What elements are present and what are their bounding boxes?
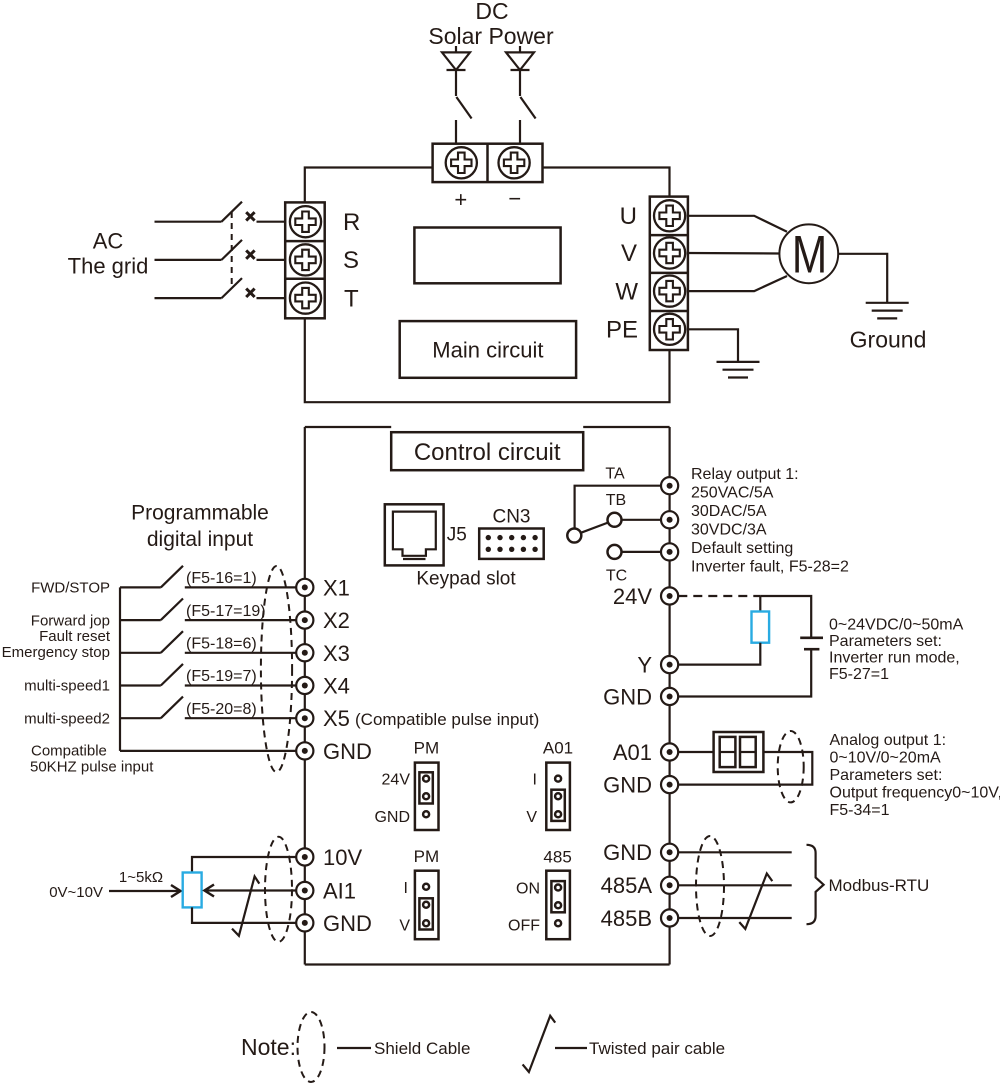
relay TB contact (608, 513, 622, 527)
svg-text:30VDC/3A: 30VDC/3A (691, 522, 767, 539)
switch S2 (DC-) (520, 97, 536, 144)
relay TC contact (608, 545, 622, 559)
svg-text:V: V (526, 809, 537, 826)
wire control box left bus (304, 427, 306, 965)
shield ellipse (AI) (265, 837, 292, 942)
wire V to motor (688, 252, 780, 255)
terminal A01 (661, 743, 678, 760)
svg-text:W: W (615, 279, 638, 306)
ground (motor) (866, 303, 909, 319)
battery plate top (800, 636, 823, 639)
keypad connector J5 (385, 504, 444, 565)
terminal TC (661, 543, 678, 560)
svg-text:GND: GND (603, 685, 652, 710)
wire diode D1 anode lead (455, 46, 457, 53)
svg-text:Inverter fault, F5-28=2: Inverter fault, F5-28=2 (691, 559, 849, 576)
shield ellipse (A01) (778, 731, 804, 802)
legend twisted line (555, 1047, 587, 1049)
svg-text:R: R (343, 209, 360, 236)
svg-text:250VAC/5A: 250VAC/5A (691, 485, 774, 502)
wire 485A (678, 884, 791, 886)
wire battery to GND (678, 649, 811, 696)
wire X3 (185, 652, 296, 654)
svg-text:ON: ON (516, 881, 540, 898)
brace modbus (807, 845, 824, 924)
svg-text:F5-27=1: F5-27=1 (829, 666, 889, 683)
wire main box top right (543, 168, 670, 197)
legend twisted mark (523, 1016, 556, 1072)
svg-text:U: U (620, 203, 637, 230)
svg-text:X2: X2 (323, 608, 350, 633)
screw terminal + (446, 147, 477, 178)
svg-text:multi-speed2: multi-speed2 (24, 711, 110, 728)
box Main circuit (400, 321, 576, 378)
svg-text:X4: X4 (323, 674, 350, 699)
svg-text:Parameters set:: Parameters set: (830, 767, 943, 784)
switch QT (grid T phase) (155, 278, 286, 298)
svg-text:Shield Cable: Shield Cable (374, 1039, 470, 1058)
terminal X1 (296, 579, 313, 596)
svg-text:Relay output 1:: Relay output 1: (691, 466, 799, 483)
svg-text:multi-speed1: multi-speed1 (24, 678, 110, 695)
wire TC (622, 551, 662, 553)
terminal 24V (661, 587, 678, 604)
svg-text:GND: GND (603, 840, 652, 865)
note analog output (830, 732, 1000, 819)
svg-text:0~10V/0~20mA: 0~10V/0~20mA (830, 750, 942, 767)
svg-text:TC: TC (606, 568, 627, 585)
svg-text:0V~10V: 0V~10V (49, 884, 103, 901)
wire control box top right (583, 426, 669, 428)
svg-text:Compatible: Compatible (31, 743, 107, 760)
svg-text:GND: GND (374, 809, 410, 826)
svg-text:X5: X5 (323, 706, 350, 731)
svg-text:I: I (404, 880, 408, 897)
wire X5 (185, 717, 296, 719)
terminal TB (661, 511, 678, 528)
wire TA (575, 486, 661, 529)
svg-text:digital input: digital input (147, 528, 253, 551)
screw terminal R (290, 206, 321, 237)
jumper block 485 (546, 871, 570, 940)
svg-text:10V: 10V (323, 845, 362, 870)
switch X1 input (120, 566, 183, 588)
wire X4 (185, 684, 296, 686)
terminal 485B (661, 909, 678, 926)
svg-text:TA: TA (605, 466, 625, 483)
terminal GND (modbus) (661, 844, 678, 861)
svg-text:(F5-20=8): (F5-20=8) (186, 701, 257, 718)
wire 24V junction to load (759, 596, 761, 612)
svg-text:1~5kΩ: 1~5kΩ (119, 869, 163, 886)
arrow pot wiper to AI1 (205, 885, 297, 897)
jumper block PM (AI) (415, 871, 439, 940)
switch QS (grid S phase) (155, 240, 286, 260)
relay blade (581, 523, 608, 533)
terminal AI1 (296, 882, 313, 899)
svg-text:(Compatible pulse input): (Compatible pulse input) (355, 710, 539, 729)
wire main box top left (305, 168, 433, 203)
svg-text:Keypad slot: Keypad slot (416, 569, 516, 590)
connector CN3 (479, 529, 544, 559)
twisted pair mark (AI) (232, 876, 259, 935)
svg-text:J5: J5 (447, 525, 467, 546)
screw terminal W (654, 276, 685, 307)
svg-text:Fault reset: Fault reset (39, 628, 111, 645)
svg-text:X3: X3 (323, 641, 350, 666)
svg-text:GND: GND (323, 739, 372, 764)
terminal X3 (296, 644, 313, 661)
legend shield line (337, 1047, 371, 1049)
screw terminal U (654, 200, 685, 231)
arrow input to pot (109, 885, 181, 897)
resistor load (blue) (752, 612, 770, 643)
wire U to motor (688, 216, 787, 232)
wire pot to GND (192, 907, 296, 923)
svg-text:Analog output 1:: Analog output 1: (830, 732, 947, 749)
svg-text:PM: PM (414, 847, 440, 866)
svg-text:(F5-19=7): (F5-19=7) (186, 668, 257, 685)
wire 24V dashed (678, 595, 760, 597)
svg-text:(F5-17=19): (F5-17=19) (186, 603, 266, 620)
wire PE to ground (688, 329, 738, 362)
converter block (714, 732, 764, 772)
svg-text:24V: 24V (613, 584, 652, 609)
jumper block A01 (546, 763, 570, 830)
svg-text:PM: PM (414, 739, 440, 758)
terminal block DC (+/-) (433, 144, 543, 182)
wire W to motor (688, 276, 787, 291)
shield ellipse (modbus) (696, 836, 724, 936)
terminal 10V (296, 848, 313, 865)
note Y output (829, 617, 964, 684)
switch X4 input (120, 664, 183, 686)
svg-text:485B: 485B (601, 906, 652, 931)
screw terminal S (290, 244, 321, 275)
breaker mark x (S) (246, 250, 254, 258)
svg-text:Default setting: Default setting (691, 540, 793, 557)
terminal GND (Y) (661, 688, 678, 705)
svg-text:F5-34=1: F5-34=1 (830, 802, 890, 819)
svg-text:Y: Y (637, 653, 652, 678)
switch QR (grid R phase) (155, 202, 286, 222)
terminal block UVW PE (650, 197, 688, 350)
svg-text:X1: X1 (323, 576, 350, 601)
legend shield ellipse (298, 1012, 325, 1082)
wire X2 (185, 619, 296, 621)
svg-text:PE: PE (606, 317, 638, 344)
svg-text:The grid: The grid (68, 254, 149, 279)
screw terminal V (654, 237, 685, 268)
screw terminal T (290, 283, 321, 314)
terminal X4 (296, 677, 313, 694)
svg-text:Output frequency0~10V,: Output frequency0~10V, (830, 785, 1000, 802)
svg-text:Solar Power: Solar Power (428, 23, 554, 49)
terminal TA (661, 477, 678, 494)
svg-text:CN3: CN3 (492, 507, 530, 528)
svg-text:A01: A01 (613, 740, 652, 765)
wire GND input (120, 750, 296, 752)
svg-text:GND: GND (603, 773, 652, 798)
svg-text:AI1: AI1 (323, 879, 356, 904)
note relay output (691, 466, 849, 576)
wire 24V to battery (760, 596, 811, 638)
svg-text:0~24VDC/0~50mA: 0~24VDC/0~50mA (829, 617, 964, 634)
box Control circuit (391, 432, 583, 470)
shield ellipse (digital inputs) (261, 566, 292, 772)
wire control box top left (305, 426, 391, 428)
svg-text:Emergency stop: Emergency stop (2, 644, 110, 661)
wire diode D2 anode lead (519, 46, 521, 53)
svg-text:+: + (454, 187, 467, 212)
terminal GND (AI) (296, 914, 313, 931)
svg-text:−: − (508, 186, 521, 211)
terminal block RST (285, 202, 325, 318)
svg-text:Programmable: Programmable (131, 502, 269, 525)
wire 10V to pot (192, 857, 296, 873)
svg-text:M: M (792, 226, 827, 285)
breaker gang dashed link (231, 212, 233, 289)
ground (PE) (717, 362, 760, 378)
svg-text:485A: 485A (601, 873, 653, 898)
twisted pair mark (modbus) (739, 874, 772, 929)
switch X2 input (120, 599, 183, 621)
svg-text:485: 485 (543, 848, 571, 867)
svg-text:Inverter run mode,: Inverter run mode, (829, 650, 960, 667)
svg-text:GND: GND (323, 911, 372, 936)
svg-text:DC: DC (475, 0, 508, 24)
svg-text:Forward jop: Forward jop (31, 613, 110, 630)
svg-text:TB: TB (606, 492, 626, 509)
wire load to Y (678, 643, 760, 665)
relay common contact (567, 529, 581, 543)
svg-text:(F5-16=1): (F5-16=1) (186, 570, 257, 587)
svg-text:V: V (399, 918, 410, 935)
svg-text:Main circuit: Main circuit (432, 338, 543, 363)
svg-text:24V: 24V (382, 772, 411, 789)
svg-text:50KHZ pulse input: 50KHZ pulse input (30, 759, 154, 776)
svg-text:T: T (344, 286, 359, 313)
potentiometer (blue) (183, 873, 202, 908)
terminal 485A (661, 877, 678, 894)
wire GND (modbus) (678, 851, 791, 853)
breaker mark x (R) (246, 212, 254, 220)
svg-text:Twisted pair cable: Twisted pair cable (589, 1039, 725, 1058)
wire 485B (678, 917, 791, 919)
terminal Y (661, 656, 678, 673)
svg-text:FWD/STOP: FWD/STOP (31, 580, 110, 597)
wire converter to GND (678, 752, 812, 785)
svg-text:30DAC/5A: 30DAC/5A (691, 503, 767, 520)
switch S1 (DC+) (456, 97, 472, 144)
wire input bus (119, 587, 121, 751)
motor M (779, 224, 838, 284)
terminal X5 (296, 710, 313, 727)
svg-text:Note:: Note: (241, 1034, 296, 1060)
wire main box bottom (305, 318, 670, 402)
wire control box bottom (305, 963, 670, 965)
box (reserved) (414, 228, 560, 284)
wire X1 (185, 586, 296, 588)
svg-text:Control circuit: Control circuit (414, 439, 561, 466)
svg-text:I: I (533, 772, 537, 789)
breaker mark x (T) (246, 289, 254, 297)
svg-text:Modbus-RTU: Modbus-RTU (829, 876, 930, 895)
switch X5 input (120, 697, 183, 719)
terminal GND (inputs) (296, 742, 313, 759)
svg-text:S: S (343, 247, 359, 274)
svg-text:V: V (621, 240, 637, 267)
wire A01 to converter (678, 751, 713, 753)
wire TB (622, 519, 662, 521)
wire control box right bus (668, 427, 670, 965)
screw terminal - (498, 147, 529, 178)
svg-text:AC: AC (93, 229, 124, 254)
jumper block PM (power) (415, 763, 439, 830)
svg-text:OFF: OFF (508, 918, 540, 935)
diode D1 (442, 52, 470, 96)
svg-text:A01: A01 (543, 739, 573, 758)
svg-text:Ground: Ground (850, 327, 927, 353)
switch X3 input (120, 631, 183, 653)
screw terminal PE (654, 314, 685, 345)
terminal GND (A01) (661, 776, 678, 793)
diode D2 (506, 52, 534, 96)
terminal X2 (296, 612, 313, 629)
wire motor to ground (838, 254, 887, 303)
svg-text:Parameters set:: Parameters set: (829, 633, 942, 650)
battery plate bottom (804, 648, 819, 651)
svg-text:(F5-18=6): (F5-18=6) (186, 636, 257, 653)
